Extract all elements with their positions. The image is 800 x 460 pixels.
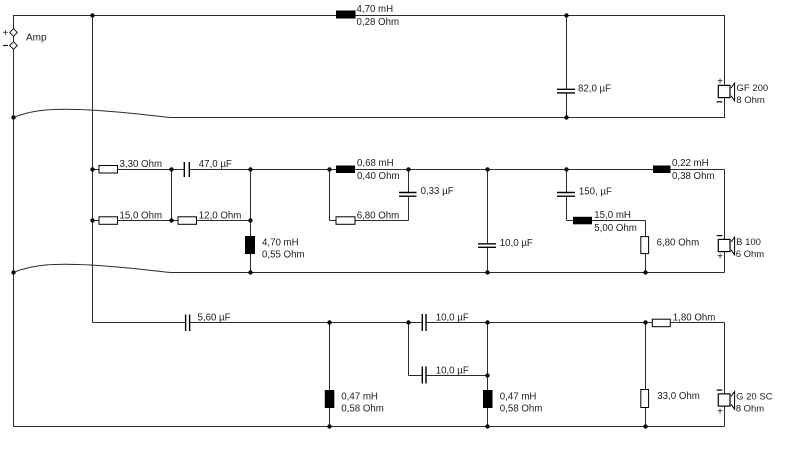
wire midrange return curve bbox=[14, 264, 172, 272]
wire woofer cap branch bbox=[566, 16, 568, 93]
wire tweeter shunt column 487 bbox=[487, 323, 489, 427]
wire 6.8ohm shunt column bbox=[645, 221, 647, 273]
node 250 return bbox=[248, 270, 252, 274]
inductor 15,0 mH 5,00 Ohm bbox=[573, 210, 637, 234]
wire mid shunt cap column bbox=[487, 170, 489, 273]
wire 150uF column bbox=[566, 170, 568, 221]
svg-text:+: + bbox=[717, 407, 723, 418]
node mid shunt return bbox=[485, 270, 489, 274]
wire midrange top row bbox=[93, 169, 725, 171]
node top rail / mid feed bbox=[90, 13, 94, 17]
inductor 0,22 mH 0,38 Ohm bbox=[653, 158, 715, 182]
capacitor 10,0 uF (upper parallel) bbox=[422, 312, 469, 331]
capacitor 0,33 uF bbox=[398, 186, 454, 197]
resistor 3,30 Ohm bbox=[99, 159, 162, 173]
wire midrange lower row left bbox=[93, 220, 251, 222]
svg-text:Amp: Amp bbox=[26, 32, 47, 43]
svg-text:0,58 Ohm: 0,58 Ohm bbox=[341, 403, 384, 414]
svg-text:12,0 Ohm: 12,0 Ohm bbox=[199, 210, 242, 221]
node 150uF top bbox=[564, 167, 568, 171]
node lower row left bbox=[90, 218, 94, 222]
inductor 4,70 mH 0,28 Ohm (woofer series) bbox=[336, 4, 399, 28]
svg-text:4,70 mH: 4,70 mH bbox=[357, 4, 394, 15]
node bottom rail 644 bbox=[643, 424, 647, 428]
wire link 171 column bbox=[171, 170, 173, 221]
svg-text:1,80 Ohm: 1,80 Ohm bbox=[673, 312, 716, 323]
resistor 1,80 Ohm bbox=[652, 312, 715, 326]
node notch right top bbox=[406, 167, 410, 171]
svg-text:6,80 Ohm: 6,80 Ohm bbox=[657, 238, 700, 249]
svg-text:0,58 Ohm: 0,58 Ohm bbox=[500, 403, 543, 414]
wire tweeter shunt column 329 bbox=[329, 323, 331, 427]
svg-text:G 20 SC: G 20 SC bbox=[736, 392, 773, 403]
svg-text:150, µF: 150, µF bbox=[579, 187, 612, 198]
node mid row left bbox=[90, 167, 94, 171]
node bottom rail 487 bbox=[485, 424, 489, 428]
node parallel cap lower right bbox=[485, 373, 489, 377]
svg-text:0,47 mH: 0,47 mH bbox=[341, 392, 378, 403]
wire woofer return rail bbox=[170, 117, 725, 119]
wire GF200 column bbox=[724, 16, 726, 86]
svg-text:15,0 mH: 15,0 mH bbox=[594, 210, 631, 221]
svg-text:0,55 Ohm: 0,55 Ohm bbox=[262, 249, 305, 260]
wire B100 column bbox=[724, 170, 726, 240]
amp plus terminal bbox=[3, 28, 18, 39]
amp minus terminal bbox=[3, 42, 17, 50]
capacitor 10,0 uF (midrange shunt) bbox=[477, 238, 533, 249]
svg-text:6,80 Ohm: 6,80 Ohm bbox=[357, 210, 400, 221]
svg-text:8 Ohm: 8 Ohm bbox=[736, 95, 765, 106]
svg-text:4,70 mH: 4,70 mH bbox=[262, 238, 299, 249]
svg-text:33,0 Ohm: 33,0 Ohm bbox=[657, 391, 700, 402]
wire top positive rail bbox=[13, 15, 725, 17]
node tweeter row 487 bbox=[485, 320, 489, 324]
svg-text:0,68 mH: 0,68 mH bbox=[357, 158, 394, 169]
capacitor 10,0 uF (lower parallel) bbox=[422, 365, 469, 383]
svg-text:82,0 µF: 82,0 µF bbox=[578, 83, 611, 94]
capacitor 150, uF bbox=[556, 187, 612, 198]
svg-text:15,0 Ohm: 15,0 Ohm bbox=[120, 210, 163, 221]
node mid shunt top bbox=[485, 167, 489, 171]
node 250 top bbox=[248, 167, 252, 171]
svg-text:0,33 µF: 0,33 µF bbox=[421, 186, 454, 197]
inductor 0,47 mH 0,58 Ohm (right) bbox=[483, 390, 542, 414]
capacitor 5,60 uF (tweeter series) bbox=[186, 312, 231, 331]
wire notch group left column bbox=[329, 170, 331, 221]
wire 15mH row bbox=[567, 220, 646, 222]
wire midrange return rail bbox=[170, 272, 725, 274]
wire parallel cap left column bbox=[408, 323, 410, 376]
resistor 12,0 Ohm bbox=[178, 210, 241, 224]
resistor 33,0 Ohm bbox=[641, 390, 700, 408]
node 250 lower bbox=[248, 218, 252, 222]
node tweeter row 408 bbox=[406, 320, 410, 324]
resistor 15,0 Ohm bbox=[99, 210, 162, 224]
node 6,8 Ohm return bbox=[643, 270, 647, 274]
node notch left top bbox=[327, 167, 331, 171]
wire tweeter row bbox=[93, 322, 725, 324]
node tweeter row 644 bbox=[643, 320, 647, 324]
wire midrange feed column bbox=[92, 16, 94, 323]
wire left amp column bbox=[13, 16, 15, 427]
node woofer return tap bbox=[11, 115, 15, 119]
wire G20SC column bbox=[724, 323, 726, 394]
svg-text:0,22 mH: 0,22 mH bbox=[672, 158, 709, 169]
svg-text:0,28 Ohm: 0,28 Ohm bbox=[357, 17, 400, 28]
svg-text:GF 200: GF 200 bbox=[737, 83, 769, 94]
speaker GF 200 8 Ohm bbox=[717, 77, 768, 106]
svg-text:+: + bbox=[717, 77, 723, 88]
svg-text:B 100: B 100 bbox=[736, 237, 761, 248]
wire woofer return curve bbox=[14, 109, 172, 117]
node tweeter row 329 bbox=[327, 320, 331, 324]
svg-text:10,0 µF: 10,0 µF bbox=[436, 365, 469, 376]
speaker B 100 6 Ohm bbox=[717, 236, 765, 263]
svg-text:10,0 µF: 10,0 µF bbox=[436, 312, 469, 323]
wire notch group lower row bbox=[330, 220, 409, 222]
node bottom rail 329 bbox=[327, 424, 331, 428]
svg-text:+: + bbox=[717, 252, 723, 263]
node top rail / 82uF bbox=[564, 13, 568, 17]
capacitor 82,0 uF (woofer shunt) bbox=[556, 83, 611, 94]
svg-text:47,0 µF: 47,0 µF bbox=[199, 159, 232, 170]
svg-text:5,00 Ohm: 5,00 Ohm bbox=[594, 223, 637, 234]
resistor 6,80 Ohm (midrange shunt) bbox=[641, 237, 699, 254]
inductor 0,47 mH 0,58 Ohm (left) bbox=[325, 390, 384, 414]
svg-text:6 Ohm: 6 Ohm bbox=[736, 249, 765, 260]
capacitor 47,0 uF (series) bbox=[184, 159, 232, 178]
wire parallel cap lower row bbox=[409, 375, 488, 377]
speaker G 20 SC 8 Ohm bbox=[717, 390, 773, 418]
svg-text:0,40 Ohm: 0,40 Ohm bbox=[357, 171, 400, 182]
node between 15 and 12 Ohm bbox=[169, 218, 173, 222]
svg-text:0,47 mH: 0,47 mH bbox=[500, 392, 537, 403]
wire bottom return rail bbox=[13, 426, 725, 428]
svg-text:3,30 Ohm: 3,30 Ohm bbox=[120, 159, 163, 170]
node midrange return tap bbox=[11, 270, 15, 274]
svg-text:5,60 µF: 5,60 µF bbox=[198, 312, 231, 323]
inductor 0,68 mH 0,40 Ohm bbox=[336, 158, 400, 182]
wire 250 column bbox=[250, 170, 252, 273]
svg-text:0,38 Ohm: 0,38 Ohm bbox=[672, 171, 715, 182]
node after 3,30 Ohm bbox=[169, 167, 173, 171]
svg-text:8 Ohm: 8 Ohm bbox=[736, 404, 765, 415]
svg-text:+: + bbox=[3, 28, 9, 39]
resistor 6,80 Ohm (notch damping) bbox=[336, 210, 399, 224]
inductor 4,70 mH 0,55 Ohm (midrange shunt) bbox=[245, 236, 305, 260]
wire 33ohm column bbox=[645, 323, 647, 427]
svg-text:10,0 µF: 10,0 µF bbox=[500, 238, 533, 249]
wire notch cap column bbox=[408, 170, 410, 221]
node 82uF bottom bbox=[564, 115, 568, 119]
